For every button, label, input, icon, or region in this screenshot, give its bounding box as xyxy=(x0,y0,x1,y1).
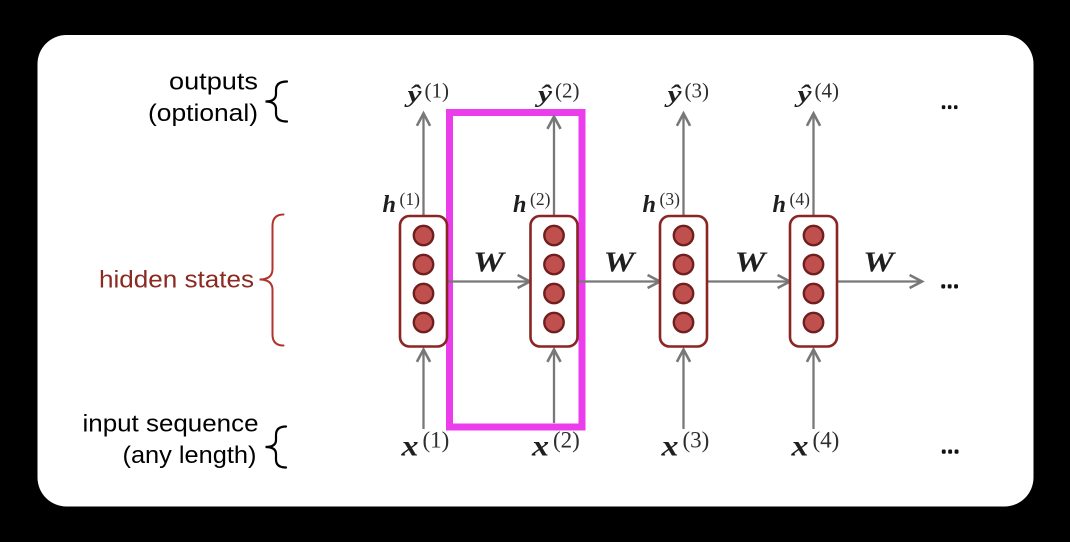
svg-text:h: h xyxy=(513,192,527,218)
brace for hidden states xyxy=(260,215,284,346)
svg-text:(2): (2) xyxy=(553,428,580,453)
output label y^(3) xyxy=(664,79,709,109)
arrow up from h4 to y4 xyxy=(807,113,820,216)
svg-text:hidden states: hidden states xyxy=(99,267,254,294)
svg-text:(2): (2) xyxy=(530,189,551,209)
svg-text:W: W xyxy=(473,248,507,279)
svg-text:input sequence: input sequence xyxy=(83,411,259,438)
output label y^(1) xyxy=(404,79,449,109)
arrow up from x3 into cell 3 xyxy=(677,350,690,430)
hidden state cell 3 xyxy=(660,216,707,347)
svg-text:(4): (4) xyxy=(813,428,840,453)
recurrent arrow cell4 onward xyxy=(837,275,922,288)
svg-text:h: h xyxy=(643,192,657,218)
ellipsis bottom right xyxy=(942,450,959,454)
label: hidden states xyxy=(99,267,254,294)
svg-text:x: x xyxy=(790,430,808,463)
weight label W (2-3) xyxy=(604,248,638,279)
weight label W (4-...) xyxy=(863,248,897,279)
arrow up from h3 to y3 xyxy=(677,113,690,216)
input label x^(3) xyxy=(660,428,709,463)
brace for outputs xyxy=(266,82,288,122)
output label y^(4) xyxy=(794,79,839,109)
hidden state label h^(3) xyxy=(643,189,681,218)
recurrent arrow cell3 to cell4 xyxy=(707,275,790,288)
svg-text:(1): (1) xyxy=(400,189,421,209)
hidden state label h^(1) xyxy=(383,189,421,218)
ellipsis top right xyxy=(942,105,958,109)
svg-text:(3): (3) xyxy=(685,79,710,103)
hidden state cell 2 xyxy=(531,216,578,347)
svg-text:(4): (4) xyxy=(815,79,840,103)
input label x^(1) xyxy=(400,428,449,463)
hidden state cell 4 xyxy=(790,216,837,347)
svg-text:(1): (1) xyxy=(423,428,450,453)
recurrent arrow cell2 to cell3 xyxy=(577,275,660,288)
highlight box (magenta) around time step 2 xyxy=(450,113,583,428)
weight label W (1-2) xyxy=(473,248,507,279)
svg-text:x: x xyxy=(400,430,418,463)
hidden state label h^(4) xyxy=(773,189,811,218)
weight label W (3-4) xyxy=(735,248,769,279)
input label x^(2) xyxy=(531,428,580,463)
svg-text:(4): (4) xyxy=(790,189,811,209)
svg-text:(optional): (optional) xyxy=(148,100,258,127)
svg-text:W: W xyxy=(863,248,897,279)
svg-text:x: x xyxy=(531,430,549,463)
recurrent arrow cell1 to cell2 xyxy=(447,275,531,288)
svg-text:(3): (3) xyxy=(660,189,681,209)
svg-text:W: W xyxy=(735,248,769,279)
ellipsis middle right xyxy=(941,284,958,288)
svg-text:h: h xyxy=(773,192,787,218)
arrow up from x4 into cell 4 xyxy=(807,350,820,430)
svg-text:(3): (3) xyxy=(683,428,710,453)
arrow up from x2 into cell 2 xyxy=(547,350,560,424)
hidden state label h^(2) xyxy=(513,189,551,218)
label: outputs (optional) xyxy=(148,69,258,128)
svg-text:(2): (2) xyxy=(555,79,580,103)
arrow up from h2 to y2 xyxy=(547,117,560,217)
output label y^(2) xyxy=(534,79,579,109)
arrow up from x1 into cell 1 xyxy=(417,350,430,430)
svg-text:(1): (1) xyxy=(425,79,450,103)
svg-text:outputs: outputs xyxy=(169,69,258,96)
svg-text:(any length): (any length) xyxy=(123,442,257,469)
input label x^(4) xyxy=(790,428,839,463)
hidden state cell 1 xyxy=(400,216,447,347)
svg-text:h: h xyxy=(383,192,397,218)
svg-text:W: W xyxy=(604,248,638,279)
brace for input sequence xyxy=(266,427,287,468)
label: input sequence (any length) xyxy=(83,411,259,470)
arrow up from h1 to y1 xyxy=(417,113,430,216)
svg-text:x: x xyxy=(660,430,678,463)
